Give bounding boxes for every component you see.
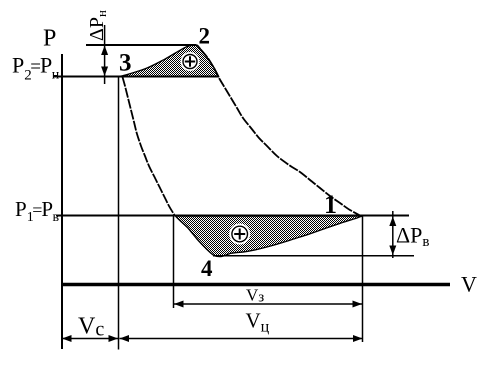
lower reference line at point 4 level [213,255,414,257]
V3 dimension line [174,303,362,305]
hatched hump area between discharge line 3-2 and P2 level [121,45,219,76]
V axis [61,283,450,287]
svg-text:P: P [43,26,56,52]
svg-text:V: V [461,272,477,297]
P2=Pn level line [54,76,219,78]
hatched suction dip area between P1 level and line 4-1 [176,216,363,257]
right extension vertical line through point 1 [362,215,364,342]
Vts dimension line [120,338,363,340]
expansion curve 3-4 [123,77,176,216]
delta P_v measurement arrow (right) [392,211,394,258]
svg-text:4: 4 [201,256,213,281]
compression curve 1-2 [197,45,362,217]
clearance volume vertical line [118,77,120,350]
V3 extension vertical line [173,216,175,308]
svg-text:Vc: Vc [78,314,104,341]
plus circle lower [229,224,250,245]
P1=Pv level line [56,215,409,217]
top reference line at point 2 level [86,44,197,46]
svg-text:1: 1 [324,190,337,219]
P axis [61,54,63,349]
Vc dimension line [62,338,118,340]
svg-text:3: 3 [119,50,132,77]
delta P_n measurement arrow (top) [104,25,106,84]
svg-text:2: 2 [199,24,211,49]
plus circle upper [181,52,200,71]
